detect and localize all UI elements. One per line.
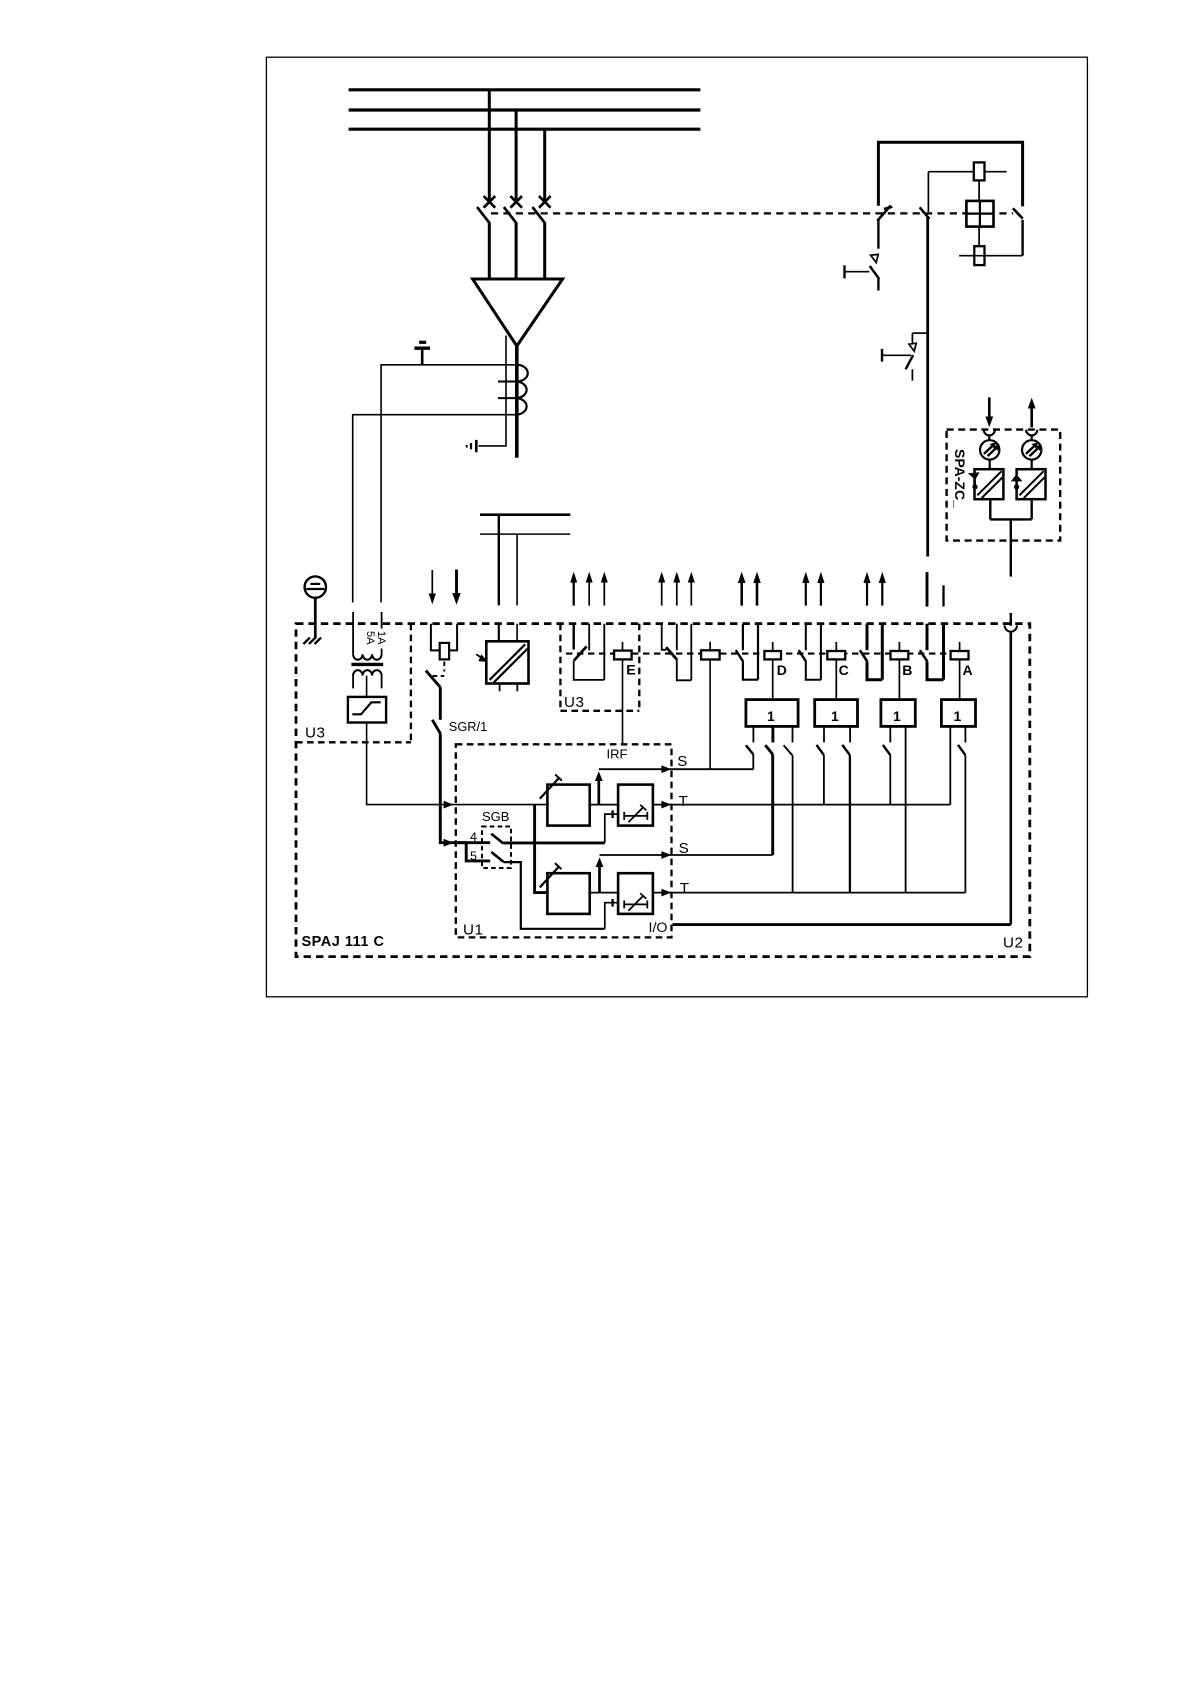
svg-text:1A: 1A	[375, 631, 387, 645]
fiber receive triangle and node	[968, 472, 980, 489]
wire: L3 below breaker to cable head	[543, 223, 546, 279]
wire: riser to timer 2 block	[605, 903, 618, 929]
SGR switch blade 1	[426, 671, 441, 688]
core balance CT winding	[517, 365, 528, 415]
circuit breaker pole 1 (X mark)	[484, 196, 496, 208]
latch D output stubs	[753, 726, 792, 742]
svg-text:1: 1	[831, 708, 839, 724]
wire: SGR chain to U1	[440, 734, 466, 843]
figure frame	[266, 57, 1087, 997]
breaker aux contact blade (right)	[1013, 208, 1023, 218]
CT winding tap 1	[498, 381, 517, 383]
busbar L1	[349, 88, 701, 91]
arrow: serial data in	[985, 397, 993, 427]
latch C output stubs	[824, 726, 850, 742]
wire: serial riser inside U2	[1009, 632, 1012, 925]
latch B direct wire to T2	[905, 726, 907, 892]
signal relay coil	[701, 642, 720, 660]
svg-text:T: T	[680, 880, 689, 897]
relay serial connector notch	[1005, 625, 1017, 631]
connector notch tx	[1026, 430, 1037, 436]
circuit breaker pole 2 (X mark)	[510, 196, 522, 208]
earth symbol on cable sheath	[467, 440, 477, 452]
SGB switchgroup dashed box	[482, 827, 511, 869]
latch box C	[815, 700, 858, 727]
wire: SGR input loop right	[449, 624, 457, 651]
svg-text:I/O: I/O	[649, 920, 668, 936]
latch A contact to T2	[958, 745, 965, 893]
wire: aux lead 1 into relay	[498, 624, 500, 642]
breaker linkage dashed line	[491, 212, 1013, 214]
wire: earth circle stem	[314, 598, 317, 639]
contact B loop	[867, 662, 882, 680]
contact B terminal wires	[867, 624, 882, 680]
wire: S2 line	[600, 854, 773, 856]
svg-text:U2: U2	[1003, 935, 1023, 952]
wire: SGR chain middle	[439, 687, 442, 720]
arrow: SGR aux input 2	[452, 570, 460, 605]
level module characteristic curve	[352, 702, 380, 714]
breaker aux contact blade (middle)	[920, 207, 930, 219]
lever 2 actuator bar	[882, 349, 911, 362]
wire: I/O serial bus	[673, 923, 1011, 926]
busbar L3	[349, 128, 701, 131]
connector notch rx	[984, 430, 995, 436]
wire: serial stub to relay connector	[1010, 613, 1012, 626]
cable sheath earthing wire	[479, 336, 507, 446]
contact linkage dashed line	[566, 653, 950, 655]
SGB switch 4 blade	[491, 834, 503, 844]
input level module box	[348, 697, 386, 723]
latch B contact to T1	[883, 745, 890, 805]
wire: L2 below breaker to cable head	[515, 223, 518, 279]
arrowhead: T1 out of U1	[661, 801, 671, 809]
svg-text:S: S	[679, 840, 689, 857]
matching transformer primary winding	[353, 654, 382, 660]
timer 2 box	[618, 873, 653, 914]
timer 1 box	[618, 785, 653, 826]
wire: serial join bar	[990, 518, 1031, 520]
wire: lower coil feed	[959, 255, 1023, 257]
svg-text:1: 1	[893, 708, 901, 724]
arrows: E contact terminals	[570, 572, 608, 606]
SPA-ZC bus connection module dashed box	[947, 430, 1061, 541]
manual operating lever 2 tie wire	[912, 333, 927, 343]
block input bar timer 1	[611, 810, 613, 818]
wire: riser to trip coil	[927, 172, 929, 212]
arrows: signal contact terminals	[658, 572, 695, 606]
arrows: trip contact C terminals	[802, 572, 824, 606]
trip coil (lower)	[974, 246, 984, 265]
signal contact terminal wires	[662, 624, 692, 681]
protective earth circle symbol	[305, 576, 326, 597]
latch D contact to T2	[784, 745, 793, 892]
latch C contact to T1	[817, 745, 824, 805]
wire: signal coil to S line	[709, 660, 711, 770]
svg-text:1: 1	[954, 708, 962, 724]
latch A stub right	[964, 726, 966, 742]
opto coupler tx box	[1017, 469, 1046, 499]
svg-text:C: C	[839, 662, 849, 678]
arrowhead: measuring input into U1	[444, 801, 454, 809]
arrows: trip contact B terminals	[863, 572, 886, 606]
wire: SGB 5 to stage2 block input	[503, 862, 604, 929]
wire: stage 1 to timer 1	[590, 804, 618, 806]
wire: opto rx down	[989, 499, 991, 519]
wire stub below lever 1	[877, 279, 879, 291]
wire: E coil to IRF	[622, 659, 624, 744]
relay coil D	[764, 642, 781, 660]
wire: T1 line	[653, 804, 950, 806]
svg-text:S: S	[677, 753, 687, 770]
lever 1 contact blade	[870, 266, 880, 279]
arrows: trip contact D terminals	[738, 572, 761, 606]
SGB switch 5 blade	[491, 852, 503, 862]
wire: power module bottom stub 2	[516, 684, 518, 692]
wire: coil A to latch	[959, 659, 961, 699]
svg-text:1: 1	[767, 708, 775, 724]
measuring stage 1 box	[547, 785, 589, 826]
wire: SGB feed split	[453, 841, 490, 844]
latch A direct wire to T1	[949, 726, 951, 804]
arrowhead: S2 out of U1	[661, 851, 671, 859]
arrowhead: SGR signal into U1	[444, 839, 454, 847]
auxiliary supply bar minus	[480, 533, 570, 535]
SGR/1 switch blade 2	[432, 720, 440, 734]
wire: coil B to latch	[898, 659, 900, 699]
wire: coil to mechanism box	[978, 180, 980, 201]
wire: secondary end lead 2	[381, 676, 383, 689]
svg-text:5A: 5A	[364, 631, 376, 645]
contact D loop	[743, 662, 758, 680]
arrow: start signal 1	[595, 771, 603, 804]
wire: coil D to latch	[772, 659, 774, 699]
wire: secondary centre tap	[366, 676, 368, 697]
wire: modem tx to opto	[1031, 460, 1033, 470]
breaker operating mechanism box	[966, 201, 993, 227]
wire below right aux contact	[1021, 220, 1023, 256]
wire: trip supply vertical	[926, 218, 929, 557]
wire: notch to modem rx	[988, 435, 990, 441]
wire: opto tx down	[1030, 499, 1032, 519]
wire: aux lead 2 into relay	[516, 624, 518, 642]
cable termination (triangle)	[473, 279, 563, 346]
contact A blade	[920, 650, 927, 661]
auxiliary supply bar plus	[480, 513, 570, 516]
wire: stage 2 feed tee	[535, 805, 547, 893]
contact C loop	[806, 662, 821, 680]
contact C blade	[799, 650, 806, 661]
lever 1 actuator bar	[845, 265, 870, 278]
svg-text:U3: U3	[305, 725, 325, 742]
lever 2 triangle indicator	[909, 343, 916, 351]
wire: stage 2 to timer 2	[590, 892, 618, 894]
contact D blade	[736, 650, 743, 661]
wire: modem rx to opto	[989, 460, 991, 470]
breaker pole 2 blade	[504, 207, 517, 223]
wire: phase L1 drop from busbar	[488, 90, 491, 201]
E contact blade	[574, 646, 587, 660]
wire: phase L3 drop from busbar	[543, 129, 546, 201]
earth symbol on CT secondary	[414, 342, 430, 365]
wire: serial drop from SPA-ZC	[1010, 519, 1012, 576]
svg-text:E: E	[626, 663, 635, 679]
CT winding tap 2	[498, 397, 517, 399]
arrow: SGR aux input 1	[429, 570, 436, 604]
matching transformer secondary winding	[353, 670, 382, 676]
breaker pole 1 blade	[477, 207, 490, 223]
manual operating lever 1 (triangle indicator)	[871, 254, 879, 262]
contact A loop	[927, 662, 944, 680]
wire: power module bottom stub 1	[499, 684, 501, 692]
power supply module box	[486, 641, 528, 683]
opto coupler rx box	[975, 469, 1004, 499]
U3 input module dashed box	[296, 624, 411, 743]
wire: matching transformer lead 1	[352, 612, 354, 654]
wire: L1 below breaker to cable head	[488, 223, 491, 279]
wire: T2 line	[653, 892, 966, 894]
stage 2 setting arrow	[540, 863, 562, 887]
E relay coil	[614, 642, 632, 659]
SGR linkage dashes	[433, 662, 445, 676]
svg-text:U3: U3	[564, 694, 584, 711]
wire: CT secondary top lead	[381, 365, 517, 603]
wire: coil C to latch	[835, 659, 837, 699]
trip contact A terminal stubs	[927, 572, 944, 606]
arrowhead: T2 out of U1	[661, 889, 671, 897]
wire: SGR input loop left	[431, 624, 440, 651]
relay coil B	[891, 642, 909, 660]
chassis earth hatch	[303, 638, 321, 644]
latch D contact to S1	[746, 745, 753, 769]
wire: SGB 4 to stage1 block input	[503, 841, 604, 844]
relay coil C	[827, 642, 845, 660]
wire: stage 2 input	[535, 892, 548, 894]
svg-text:U1: U1	[463, 922, 483, 939]
latch D contact to S2	[765, 745, 772, 855]
latch box D	[746, 700, 798, 727]
contact A terminal wires	[927, 624, 944, 680]
svg-text:SGR/1: SGR/1	[449, 719, 487, 734]
E contact terminal wires	[574, 624, 605, 680]
wire: S1 line	[599, 768, 754, 770]
wire: SGB branch down to 5	[466, 843, 490, 861]
contact D terminal wires	[743, 624, 758, 680]
latch box A	[941, 700, 975, 727]
stage 1 setting arrow	[540, 775, 562, 799]
svg-text:SPA-ZC_: SPA-ZC_	[952, 449, 968, 508]
busbar L2	[349, 108, 701, 111]
wire: aux supply lead 1	[498, 515, 500, 606]
relay coil A	[951, 642, 969, 660]
wire: secondary end lead 1	[352, 676, 354, 689]
wire below left aux contact	[877, 220, 879, 249]
breaker pole 3 blade	[533, 207, 546, 223]
wire: mechanism to lower coil	[978, 227, 980, 247]
svg-text:SGB: SGB	[482, 809, 509, 824]
wire: trip coil top feed	[928, 171, 1006, 173]
latch C contact to T2	[842, 745, 850, 893]
modem symbol rx (circle)	[980, 440, 1000, 459]
contact C terminal wires	[806, 624, 821, 680]
latch B stub left	[889, 726, 891, 742]
trip circuit bracket wire	[878, 142, 1022, 206]
wire: CT secondary bottom lead	[353, 415, 517, 603]
svg-text:IRF: IRF	[607, 747, 628, 762]
matching transformer core	[351, 663, 383, 666]
signal contact blade	[666, 647, 677, 660]
block input bar timer 2	[611, 899, 613, 907]
U1 measuring module dashed box	[456, 744, 672, 937]
arrowhead: S1 out of U1	[661, 765, 671, 773]
fiber transmit triangle and node	[1011, 474, 1023, 489]
wire: matching transformer lead 2	[381, 612, 383, 654]
modem symbol tx (circle)	[1022, 440, 1042, 459]
svg-text:SPAJ 111 C: SPAJ 111 C	[302, 934, 385, 950]
U3 output module dashed box (E relay)	[560, 624, 639, 711]
wire: phase L2 drop from busbar	[515, 110, 518, 201]
latch box B	[881, 700, 915, 727]
circuit breaker pole 3 (X mark)	[539, 196, 551, 208]
trip coil (upper)	[974, 162, 985, 180]
signal contact loop	[677, 660, 692, 681]
lever 2 contact blade	[906, 355, 914, 369]
svg-text:D: D	[777, 662, 787, 678]
wire stub below lever 2	[911, 369, 913, 380]
power module polarity arrow	[476, 654, 488, 662]
wire: aux supply lead 2	[516, 534, 518, 605]
cable below termination	[515, 346, 519, 458]
arrow: start signal 2	[596, 857, 604, 892]
breaker aux contact blade (left)	[877, 206, 892, 221]
arrow: serial data out	[1028, 398, 1036, 428]
svg-text:T: T	[679, 793, 688, 810]
svg-text:B: B	[902, 662, 912, 678]
contact B blade	[860, 650, 867, 661]
wire: notch to modem tx	[1031, 435, 1033, 441]
E contact loop	[574, 661, 605, 680]
SPAJ 111 C relay outer dashed box	[296, 624, 1030, 957]
wire: riser to timer 1 block	[605, 814, 618, 843]
svg-text:A: A	[963, 662, 973, 678]
wire: level module output to U1	[367, 723, 547, 805]
measuring stage 2 box	[547, 873, 589, 914]
SGR dropping element box	[440, 643, 449, 660]
